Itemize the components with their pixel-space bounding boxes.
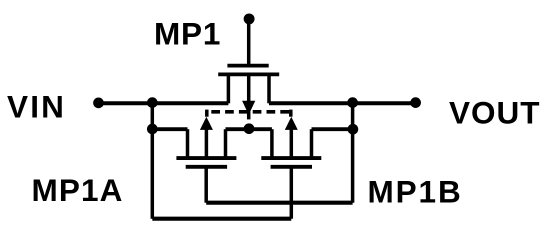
transistor MP1B bulk lead [290,130,294,159]
wire VOUT rail [269,101,416,105]
transistor MP1A bulk lead [205,130,209,159]
wire MP1A source lead horizontal [152,127,187,131]
wire VOUT node vertical [351,103,355,202]
transistor MP1 drain leg [267,74,271,103]
transistor MP1B gate bar [271,165,312,169]
transistor MP1 gate bar [227,64,268,68]
terminal VIN [93,98,104,109]
node VIN rail junction [147,97,158,108]
transistor MP1B channel bar [261,156,321,160]
svg-text:MP1B: MP1B [368,174,463,210]
node VIN lower junction [147,124,158,135]
transistor MP1B bulk arrowhead [285,117,298,130]
wire MP1B drain lead vertical [310,129,314,157]
dashed bulk box left tick [205,110,209,117]
svg-text:MP1A: MP1A [32,172,124,208]
terminal VOUT [410,97,421,108]
dashed bulk box right tick [289,110,293,117]
svg-text:MP1: MP1 [154,15,221,51]
wire MP1A drain lead horizontal [226,127,250,131]
wire MP1A gate lead [204,167,208,203]
wire VIN rail [99,101,229,105]
wire MP1A drain lead vertical [224,129,228,157]
dashed bulk box top [211,110,290,114]
wire MP1B drain lead horizontal [312,127,353,131]
wire MP1B gate lead [290,167,294,219]
wire MP1 gate lead [247,19,251,64]
transistor MP1 channel bar [218,73,279,77]
svg-text:VIN: VIN [7,89,66,125]
wire MP1A source lead vertical [186,129,190,157]
node VOUT lower junction [348,124,359,135]
transistor MP1 bulk arrowhead [242,101,255,115]
transistor MP1A bulk arrowhead [200,117,213,130]
wire VIN node vertical [151,103,155,218]
wire MP1B source lead vertical [270,129,274,157]
transistor MP1 bulk lead stub [247,111,251,119]
node VOUT rail junction [347,97,358,108]
svg-text:VOUT: VOUT [449,95,541,131]
wire MP1A gate to VOUT node horizontal [206,201,352,205]
terminal MP1 gate [244,13,255,24]
node bulk common junction [244,123,255,134]
transistor MP1A channel bar [176,156,236,160]
transistor MP1 bulk lead [247,74,251,101]
wire MP1B gate to VIN node horizontal [152,217,291,221]
transistor MP1A gate bar [186,165,227,169]
transistor MP1 source leg [227,74,231,103]
wire MP1B source lead horizontal [249,127,272,131]
